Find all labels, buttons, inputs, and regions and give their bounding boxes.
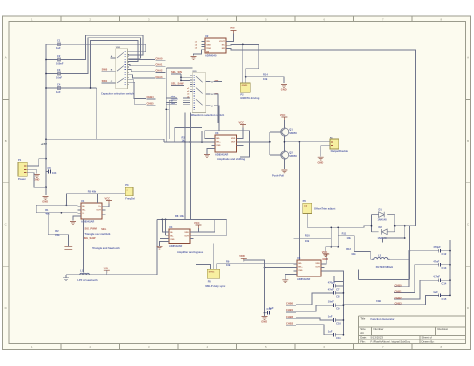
wire diode lower loop xyxy=(383,226,405,243)
wire SW2 common rail b xyxy=(166,98,190,139)
wire left capacitor bus xyxy=(45,44,47,195)
svg-text:C5: C5 xyxy=(48,166,52,170)
svg-text:FreqSel: FreqSel xyxy=(125,196,135,200)
svg-text:Waveform selection switch: Waveform selection switch xyxy=(191,113,225,117)
svg-text:Drawn By:: Drawn By: xyxy=(422,340,435,344)
capacitor C14 xyxy=(433,275,447,286)
net label CHB1 xyxy=(286,308,296,312)
wire U1 ground stub xyxy=(73,216,81,221)
svg-text:R2: R2 xyxy=(55,229,59,233)
net label CHA3 xyxy=(155,75,165,79)
wire C12 right stub xyxy=(441,250,450,252)
junction dot bottom xyxy=(264,312,266,314)
svg-text:A4: A4 xyxy=(360,331,364,335)
svg-text:CHA2: CHA2 xyxy=(155,69,163,73)
wire LPF gnd stub xyxy=(65,275,67,278)
junction dot P2 branch xyxy=(245,76,247,78)
svg-text:CHB4: CHB4 xyxy=(147,95,155,99)
wire C3 right stub xyxy=(60,73,61,75)
wire C1 right stub xyxy=(60,43,61,45)
wire lower link xyxy=(343,304,394,306)
svg-text:CHA1: CHA1 xyxy=(155,62,163,66)
wire SW1 pin to CHA1 xyxy=(128,64,156,65)
svg-text:U1: U1 xyxy=(81,199,85,203)
ground below Q2 xyxy=(281,170,287,173)
capacitor C10 xyxy=(328,315,342,326)
svg-text:CHB5: CHB5 xyxy=(147,101,155,105)
capacitor C16 xyxy=(267,307,272,314)
capacitor C7 xyxy=(328,281,340,292)
junction dots branch xyxy=(330,246,332,248)
wire U1 top pin riser xyxy=(96,194,98,203)
net label CHB0 xyxy=(286,301,296,305)
svg-text:OUT: OUT xyxy=(96,210,101,212)
svg-text:24k: 24k xyxy=(55,233,60,237)
capacitor C4 xyxy=(56,82,61,94)
svg-text:1uF: 1uF xyxy=(269,306,274,310)
title block xyxy=(359,316,466,344)
net label sine xyxy=(171,96,177,98)
svg-text:VSS: VSS xyxy=(298,270,303,272)
svg-text:104: 104 xyxy=(52,171,57,175)
svg-text:GND: GND xyxy=(318,160,324,164)
wire cap2 loop to switch xyxy=(61,35,143,59)
wire CHB2 to cap xyxy=(296,318,333,320)
wire SW1 pin to CHA3 xyxy=(128,75,156,78)
junction dot waveform rail xyxy=(165,108,167,110)
voltage reference U2 xyxy=(202,34,230,58)
wire U2 out y44.4 xyxy=(230,44,259,68)
wire U1 feedback top xyxy=(66,194,125,206)
svg-text:D1: D1 xyxy=(379,207,383,211)
svg-text:CHB2: CHB2 xyxy=(286,315,294,319)
svg-text:C3: C3 xyxy=(57,68,61,72)
svg-text:CHB0: CHB0 xyxy=(286,301,294,305)
junction dots right bus xyxy=(449,250,451,252)
svg-text:NC: NC xyxy=(222,45,226,47)
net label CHB2 right xyxy=(395,296,403,300)
ground LPF left xyxy=(63,278,69,281)
wire C1 left stub xyxy=(46,43,58,45)
wire bottom return xyxy=(359,269,410,279)
svg-text:C: C xyxy=(5,223,7,227)
junction dots U4 top net xyxy=(162,219,164,221)
svg-text:IN1+: IN1+ xyxy=(216,142,221,144)
wire output node right xyxy=(284,141,329,143)
SW2 pin name marks xyxy=(187,88,190,98)
wire R11 net xyxy=(338,236,370,252)
wire C4 right stub xyxy=(60,87,61,89)
svg-text:R14: R14 xyxy=(263,73,268,77)
wire power to cap gnd xyxy=(244,260,265,313)
net label SW1 xyxy=(102,79,111,83)
svg-text:1nF: 1nF xyxy=(328,315,333,319)
svg-text:VDD: VDD xyxy=(184,232,189,234)
svg-text:P3: P3 xyxy=(125,183,129,187)
wire C5 stub xyxy=(46,171,49,173)
svg-text:Revision: Revision xyxy=(438,327,449,331)
net label SW0 xyxy=(102,68,111,72)
wire diode bracket xyxy=(372,215,395,232)
wire cap4 net down to rail xyxy=(96,88,98,139)
power VCC push-pull xyxy=(280,113,288,120)
wire C9 right stub xyxy=(336,304,344,306)
wire output down long xyxy=(298,142,300,260)
wire C10 right stub xyxy=(336,319,344,321)
power small above LPF out xyxy=(104,270,110,273)
wire VCC to Q1 xyxy=(283,120,285,128)
wire down to P2 pin1 xyxy=(242,44,244,83)
svg-text:IN1+: IN1+ xyxy=(298,267,303,269)
wire node to Q2 xyxy=(284,142,285,151)
capacitor C5 on bus xyxy=(48,166,52,173)
svg-text:SEL: SEL xyxy=(101,227,106,231)
junction dot U2 out xyxy=(242,44,244,46)
svg-text:10k: 10k xyxy=(347,236,352,240)
wire SEL_SIN to pins xyxy=(181,74,190,80)
svg-text:VDD: VDD xyxy=(116,47,121,49)
power VCC above U4 xyxy=(194,221,202,228)
ground bottom center xyxy=(261,317,267,324)
svg-text:7dB: 7dB xyxy=(376,299,381,303)
svg-text:48k: 48k xyxy=(92,189,97,193)
svg-text:C15: C15 xyxy=(442,297,447,301)
svg-text:AD8542AR: AD8542AR xyxy=(297,277,310,281)
svg-text:FILTER 680uH: FILTER 680uH xyxy=(376,265,394,269)
connector P5 sync xyxy=(205,269,226,288)
wire osc lower loop xyxy=(48,213,68,244)
wire cap1 to switch pin xyxy=(61,44,146,52)
svg-text:VCC: VCC xyxy=(322,250,328,254)
wire U4 top net xyxy=(157,218,227,220)
svg-text:GND: GND xyxy=(322,257,328,261)
svg-text:47nF: 47nF xyxy=(328,288,334,292)
net label tri xyxy=(171,100,177,103)
wire power rail y139 xyxy=(46,139,164,142)
svg-text:VDD: VDD xyxy=(315,263,320,265)
svg-text:Triangle and Sawtooth: Triangle and Sawtooth xyxy=(92,246,120,250)
svg-text:EN: EN xyxy=(206,51,209,53)
net label CHB3 xyxy=(286,322,296,326)
svg-text:NR: NR xyxy=(222,48,226,50)
svg-text:S8050: S8050 xyxy=(289,131,297,135)
junction dot L2 out xyxy=(409,250,411,252)
transistor Q1 S8050 xyxy=(281,128,298,137)
svg-text:Title: Title xyxy=(360,317,366,321)
wire U5 bottom elbow xyxy=(334,276,343,281)
wire U1 out down to LPF xyxy=(83,219,85,273)
wire CHB1 to cap xyxy=(296,305,333,311)
wire U4 left pins xyxy=(160,219,166,238)
svg-text:1uF: 1uF xyxy=(328,329,333,333)
op-amp U1 oscillator xyxy=(78,199,106,224)
wire P1 pin2 to ground xyxy=(31,170,37,174)
svg-text:OUT: OUT xyxy=(184,236,189,238)
svg-text:B: B xyxy=(467,139,469,143)
wire down to P2 pin2 xyxy=(245,69,247,83)
connector P6 offset xyxy=(303,199,312,214)
wire CHB1 right bank xyxy=(394,265,439,293)
svg-text:TRM: TRM xyxy=(206,48,211,50)
transistor Q2 S8550 xyxy=(281,151,298,160)
svg-text:GND: GND xyxy=(34,178,40,182)
power VCC above U1 xyxy=(105,196,113,203)
svg-text:CHB1: CHB1 xyxy=(395,289,403,293)
wire VCC to U3 pin xyxy=(240,128,243,139)
svg-text:A: A xyxy=(467,56,469,60)
wire CHB0 to cap xyxy=(296,293,333,305)
svg-text:VCC: VCC xyxy=(105,196,111,200)
ground below U3 left xyxy=(204,155,210,158)
svg-text:V-: V- xyxy=(82,213,84,215)
wire feedback loop U3 xyxy=(205,131,250,157)
P1 inner pin numbers xyxy=(24,166,26,173)
svg-text:VDD: VDD xyxy=(192,71,197,73)
wire VCC to U5 xyxy=(325,257,327,264)
svg-text:GND: GND xyxy=(42,200,48,204)
svg-text:C13: C13 xyxy=(442,266,447,270)
svg-text:VDD: VDD xyxy=(230,28,235,30)
wire U5 right to bus xyxy=(325,271,344,335)
wire input line to U3 xyxy=(164,141,212,143)
connector P4 output xyxy=(330,137,349,154)
svg-text:IN1-: IN1- xyxy=(216,138,220,140)
junction dots on U3 input xyxy=(184,141,186,143)
net label SEL_SAW xyxy=(171,82,184,86)
svg-text:CHB2: CHB2 xyxy=(395,296,403,300)
svg-text:GND/TA driving: GND/TA driving xyxy=(240,96,259,100)
svg-text:Capacitor selection switch: Capacitor selection switch xyxy=(101,92,134,96)
wire SW1 pin to CHA2 xyxy=(128,70,156,72)
svg-text:SEL_SAW: SEL_SAW xyxy=(171,82,184,86)
svg-text:Power: Power xyxy=(18,177,26,181)
junction dots osc input xyxy=(66,204,68,206)
svg-text:CHB3: CHB3 xyxy=(395,302,403,306)
ground below U5 xyxy=(282,280,288,283)
wire U4 right loop1 xyxy=(194,219,215,232)
wire U4 right loop2 xyxy=(194,219,227,235)
svg-text:R12: R12 xyxy=(346,247,351,251)
svg-text:VSS: VSS xyxy=(170,239,175,241)
wire CHB0 right bank xyxy=(394,251,439,287)
svg-text:Function Generator: Function Generator xyxy=(371,317,395,321)
junction dot bases xyxy=(269,141,271,143)
svg-text:470pF: 470pF xyxy=(433,245,441,249)
svg-text:D: D xyxy=(5,306,7,310)
net label CHA0 xyxy=(155,56,165,60)
svg-text:GND: GND xyxy=(261,320,267,324)
P1 pin stubs xyxy=(27,166,31,173)
svg-text:U3: U3 xyxy=(215,131,219,135)
net label CHB5 xyxy=(147,101,156,105)
wire R10 net xyxy=(293,237,331,239)
svg-text:1uF: 1uF xyxy=(433,290,438,294)
svg-text:10nF: 10nF xyxy=(56,76,62,80)
svg-text:LPF of sawtooth: LPF of sawtooth xyxy=(77,278,98,282)
svg-text:OffsetTrim adjust: OffsetTrim adjust xyxy=(314,207,335,211)
wire gnd stub bottom xyxy=(264,313,266,317)
ground P1 xyxy=(34,175,40,182)
svg-text:C10: C10 xyxy=(336,321,341,325)
wire P6 down xyxy=(307,214,371,228)
wire bottom cap stub xyxy=(265,312,268,314)
svg-text:C4: C4 xyxy=(57,82,61,86)
power VCC above U5 xyxy=(322,250,330,257)
svg-text:U5: U5 xyxy=(297,256,301,260)
ground left bus bottom xyxy=(42,197,48,204)
capacitor C3 xyxy=(56,68,62,80)
svg-text:GND: GND xyxy=(281,88,287,92)
wire net y50 long to right bus xyxy=(230,48,416,226)
wire branch verticals xyxy=(331,227,338,247)
svg-text:C2: C2 xyxy=(57,54,61,58)
svg-text:470pF: 470pF xyxy=(328,281,336,285)
wire SW1 to CHB5 label xyxy=(128,82,147,104)
svg-text:C12: C12 xyxy=(442,252,447,256)
svg-text:47nF: 47nF xyxy=(433,259,439,263)
inductor L1 xyxy=(80,269,90,275)
svg-text:A: A xyxy=(5,56,7,60)
wire U3 gnd stub xyxy=(207,149,212,155)
wire U5 gnd stub xyxy=(285,275,293,280)
capacitor C8 xyxy=(328,288,340,299)
svg-text:GND: GND xyxy=(206,45,211,47)
net label CHB0 right xyxy=(395,283,403,287)
wire U4 gnd stub xyxy=(160,242,170,247)
wire gnd branch xyxy=(326,247,339,253)
wire SW2 common rail a xyxy=(166,68,192,142)
svg-text:P2: P2 xyxy=(240,92,244,96)
svg-text:OUT: OUT xyxy=(315,267,320,269)
svg-text:P1: P1 xyxy=(18,158,22,162)
svg-text:CHA3: CHA3 xyxy=(155,75,163,79)
svg-text:CHA0: CHA0 xyxy=(155,56,163,60)
svg-text:MSLP duty sync: MSLP duty sync xyxy=(205,284,226,288)
svg-text:C14: C14 xyxy=(442,282,447,286)
svg-text:GND1: GND1 xyxy=(242,85,249,87)
capacitor C6 red below loop xyxy=(64,244,72,249)
wire right bus xyxy=(449,240,451,295)
svg-text:IN-: IN- xyxy=(82,206,85,208)
junction dot cap4 branch xyxy=(90,87,92,89)
svg-text:ADR4540: ADR4540 xyxy=(205,54,217,58)
net label CHA1 xyxy=(155,62,165,66)
wire L2 out up xyxy=(408,226,410,259)
ground below U2 xyxy=(191,57,197,60)
svg-text:P5: P5 xyxy=(208,279,212,283)
svg-text:VIN: VIN xyxy=(206,41,210,43)
capacitor C11 xyxy=(328,329,341,340)
svg-text:1N4148: 1N4148 xyxy=(378,218,388,222)
wire Q2 to ground xyxy=(284,159,285,169)
svg-text:U2: U2 xyxy=(205,34,209,38)
wire cap3 loop to switch xyxy=(61,38,141,74)
wire base bracket xyxy=(270,132,282,155)
wire C15 right stub xyxy=(441,294,450,296)
wire U3 out to bases xyxy=(240,141,270,143)
capacitor C12 xyxy=(433,245,447,256)
wire osc input top xyxy=(36,205,78,213)
svg-text:VDD: VDD xyxy=(231,138,236,140)
power sym left xyxy=(239,254,247,261)
wire SW1 to CHB4 label xyxy=(128,80,147,99)
svg-text:10k: 10k xyxy=(180,214,185,218)
net label square xyxy=(171,98,179,100)
junction dots SEL wires xyxy=(180,76,182,78)
svg-text:1uF: 1uF xyxy=(56,46,61,50)
junction dots center bus xyxy=(343,292,345,294)
svg-text:D: D xyxy=(467,306,469,310)
svg-text:AD8542AR: AD8542AR xyxy=(81,220,94,224)
wire LPF out xyxy=(107,219,157,274)
svg-text:IN1-: IN1- xyxy=(298,263,302,265)
ground below U4 xyxy=(157,246,163,249)
junction dot bus rail xyxy=(45,138,47,140)
SW2 left pin stubs xyxy=(190,75,192,91)
svg-text:VSS: VSS xyxy=(216,145,221,147)
analog switch SW2 xyxy=(192,71,205,113)
diode D1 1N4148 xyxy=(372,207,395,221)
net label SIG_SAW xyxy=(84,236,96,240)
SW1 right pin stubs xyxy=(128,52,130,85)
svg-text:Amplifier and bypass: Amplifier and bypass xyxy=(177,250,204,254)
svg-text:B: B xyxy=(5,139,7,143)
svg-text:VCC: VCC xyxy=(239,120,245,124)
svg-text:C8: C8 xyxy=(336,294,340,298)
SW2 right output pins xyxy=(206,80,219,108)
svg-text:File:: File: xyxy=(360,340,366,344)
wire C2 left stub xyxy=(46,59,58,61)
wire C3 left stub xyxy=(46,73,58,75)
wire U2 pin to power bar xyxy=(230,34,234,42)
wire CHB3 to cap xyxy=(296,325,333,335)
svg-text:CHB1: CHB1 xyxy=(286,308,294,312)
net label SIG_PWM xyxy=(85,226,97,230)
svg-text:46k: 46k xyxy=(45,212,50,216)
wire P1 pin3 to bus xyxy=(31,173,46,188)
wire CHB2 right bank xyxy=(394,280,439,299)
svg-text:P6: P6 xyxy=(303,199,307,203)
wire SW1 pin to CHA0 xyxy=(128,58,156,60)
svg-text:R9: R9 xyxy=(226,260,230,264)
ground right of P2 xyxy=(281,85,287,92)
wire CHB3 right bank xyxy=(394,295,439,304)
wire C7 right stub xyxy=(336,285,344,287)
svg-text:10k: 10k xyxy=(351,252,356,256)
svg-text:R1: R1 xyxy=(45,208,49,212)
capacitor C1 xyxy=(56,39,61,51)
wire P1 pin1 to bus xyxy=(31,159,46,166)
wire C11 right stub xyxy=(336,334,344,336)
svg-text:S8550: S8550 xyxy=(289,154,297,158)
svg-text:Push-Pull: Push-Pull xyxy=(272,174,284,178)
svg-text:SW1: SW1 xyxy=(102,79,108,83)
junction dot U5 pin2 rail xyxy=(264,267,266,269)
capacitor C15 xyxy=(433,290,447,301)
svg-text:adj: adj xyxy=(304,206,307,208)
svg-text:1nF: 1nF xyxy=(56,90,61,94)
capacitor C2 xyxy=(56,54,64,66)
wire LPF rail xyxy=(66,274,107,276)
wire P2 branch to ground xyxy=(246,77,284,83)
wire C2 right stub xyxy=(60,59,61,61)
svg-text:OutputDouble: OutputDouble xyxy=(331,149,349,153)
wire P4 pin2 to ground xyxy=(321,146,330,157)
svg-text:10nF: 10nF xyxy=(328,300,334,304)
svg-text:SW0: SW0 xyxy=(102,68,108,72)
svg-text:D2: D2 xyxy=(379,225,383,229)
power VCC above U3 xyxy=(239,120,247,127)
